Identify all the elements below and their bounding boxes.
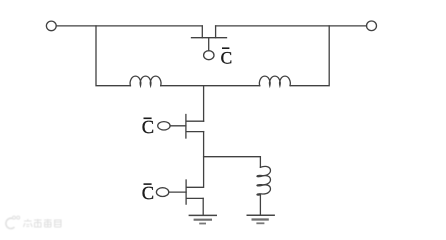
wire top rail right	[216, 25, 367, 27]
wire mid rail	[161, 85, 260, 87]
transistor M2 (cascode upper)	[158, 115, 204, 139]
wire top rail left	[56, 25, 202, 27]
svg-text:C: C	[142, 184, 154, 204]
svg-text:C: C	[142, 118, 154, 138]
terminal right port	[367, 21, 377, 31]
label Cbar M1	[221, 48, 233, 67]
wire center drop	[203, 86, 205, 122]
transistor M3 (cascode lower)	[156, 180, 203, 204]
wire left riser	[96, 26, 130, 86]
terminal left port	[46, 21, 56, 31]
svg-text:C: C	[221, 48, 233, 67]
inductor L1	[130, 76, 161, 86]
wire source to ground	[202, 198, 204, 214]
ground G1	[189, 215, 217, 223]
wire branch to tank	[204, 157, 261, 168]
transistor M1 (top series switch)	[192, 26, 227, 60]
wire right riser	[291, 26, 330, 86]
watermark	[6, 216, 62, 229]
label Cbar M3	[142, 184, 154, 204]
wire tank to ground	[259, 195, 261, 214]
wire cascode link	[203, 132, 205, 188]
ground G2	[247, 215, 275, 223]
inductor L3 (vertical)	[257, 166, 270, 195]
inductor L2	[259, 76, 290, 86]
label Cbar M2	[142, 118, 154, 138]
